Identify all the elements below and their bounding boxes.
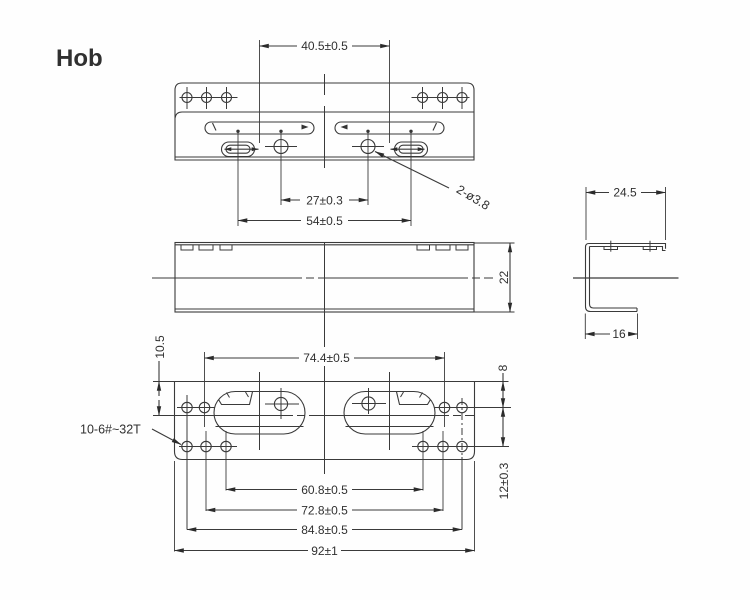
oval slot V2 inner [399,145,423,153]
svg-text:92±1: 92±1 [311,544,338,558]
dim 40.5 extension lines [260,40,390,143]
end view foot cap [636,308,638,312]
dim 27 extension lines [281,131,368,205]
dim 22 connector bottom [474,311,515,313]
cutout O1 notch shelf [219,392,253,405]
hole E1 bottom view [182,441,192,451]
dim 22 connector top [474,242,515,244]
dim 54 line [238,220,301,222]
front view outline [175,83,474,160]
slot S1 end tick [213,123,217,131]
hole E2 bottom view [201,441,211,451]
slot S1 inner arrow [302,125,309,130]
hole A6 front [457,93,467,103]
side view outline [175,243,474,313]
dim 92 extension lines [175,461,475,552]
bolt column line left [186,395,188,530]
dim 84.8 line [187,529,297,531]
screw mark M2 tab [643,247,656,250]
hole D1 bottom view [182,402,192,412]
dim 10.5 connector top [153,381,176,383]
screw mark M1 tab [604,247,618,250]
dim 92 line [175,550,309,552]
dim 74.4 extension lines [205,352,445,427]
hole A5 front [438,93,448,103]
svg-text:60.8±0.5: 60.8±0.5 [301,483,348,497]
dim 40.5 line [260,45,298,47]
tab T5 [436,245,450,250]
slot S1 left front [205,122,314,134]
cutout O2 notch shelf [397,392,431,405]
hole E3 bottom view [221,441,231,451]
tab T1 [181,245,193,250]
tab T6 [456,245,468,250]
centerline O1 vertical [259,372,261,450]
tab T4 [417,245,430,250]
crosshair holes E1-E3 [179,446,237,448]
dim 16 extension lines [585,314,637,340]
cutout O2 chord line [346,426,434,428]
hole B1 crosshair [265,146,297,148]
screw mark M2 [649,241,651,252]
dim 8 connector top [475,381,509,383]
crosshair holes D3-D4 connector dim 8 [434,407,511,409]
tab T2 [199,245,213,250]
node dots on slot edge [236,130,412,133]
svg-text:84.8±0.5: 84.8±0.5 [301,523,348,537]
cutout O2 notch ticks [420,393,423,398]
svg-text:74.4±0.5: 74.4±0.5 [303,351,350,365]
dim 8 line [502,373,504,382]
cutout O2 right obround [344,392,435,435]
end view web and foot outer [586,244,638,312]
slot S2 inner arrow [341,125,348,130]
crosshair holes D1-D2 [177,407,215,409]
hole E6 bottom view [457,441,467,451]
hole A2 front [202,93,212,103]
dim 74.4 line [205,357,300,359]
centerline O2 vertical [389,372,391,450]
dim 72.8 extension lines [206,431,443,511]
dim 12 line [502,408,504,447]
dim 10.5 line [158,361,160,382]
crosshair lines holes A1-A3 [180,87,238,109]
svg-text:72.8±0.5: 72.8±0.5 [301,504,348,518]
end view web and foot inner [590,247,638,309]
cutout O1 left obround [214,392,305,435]
tab T3 [220,245,232,250]
dim 72.8 line [206,509,297,511]
dim 60.8 line [226,489,297,491]
front view flange fold line [175,112,474,118]
hole C1 crosshair [265,388,299,419]
hole B2 crosshair [352,146,384,148]
hole B1 front (3.8) [274,140,288,154]
leader 2-o3.8 [375,152,449,189]
leader 10-6-32T line [152,429,181,445]
oval slot V1 inner [226,145,250,153]
centerline horizontal bottom view [153,415,475,417]
crosshair lines holes A4-A6 [412,87,470,109]
side view bottom inner line [175,308,474,310]
bolt column line right dashed [461,398,463,457]
svg-text:16: 16 [612,327,626,341]
dim 54 extension lines [238,131,411,226]
hole A3 front [222,93,232,103]
centerline horizontal end view [573,277,679,279]
dim 60.8 extension lines [226,431,423,491]
screw mark M1 [610,241,612,252]
hole C2 in O2 [362,397,375,410]
centerline horizontal side view [152,277,493,279]
svg-text:40.5±0.5: 40.5±0.5 [301,39,348,53]
slot S2 right front [335,122,444,134]
dim 16 line [585,333,610,335]
svg-text:2-ø3.8: 2-ø3.8 [454,182,492,213]
slot S2 end tick [433,123,437,131]
cutout O1 notch ticks [227,393,230,398]
cutout O1 chord line [216,426,304,428]
dim 24.5 line [586,192,609,194]
side view flange top inner line [175,244,474,246]
hole C2 crosshair [352,388,386,414]
dim 24.5 extension lines [586,187,666,240]
svg-text:24.5: 24.5 [613,186,637,200]
end view flange top edge [589,244,666,249]
oval slot V2 outer [395,142,428,157]
end view flange bottom edge [590,247,666,251]
centerline vertical main [324,74,326,474]
svg-text:Hob: Hob [56,45,103,72]
oval slot V2 arrow line [391,148,425,150]
hole E5 bottom view [438,441,448,451]
front view bottom inner edge [175,156,474,158]
hole A4 front [418,93,428,103]
hole B2 front (3.8) [361,140,375,154]
hole D2 bottom view [199,402,209,412]
svg-text:27±0.3: 27±0.3 [306,194,343,208]
dim 22 line [509,243,511,312]
hole A1 front [182,93,192,103]
oval slot V1 arrow line [225,148,259,150]
hole D3 bottom view [439,402,449,412]
oval slot V1 outer [222,142,255,157]
crosshair holes E4-E6 connector dim 12 [412,446,509,448]
svg-text:10-6#~32T: 10-6#~32T [80,423,141,437]
hole D4 bottom view [457,402,467,412]
svg-text:54±0.5: 54±0.5 [306,214,343,228]
svg-text:12±0.3: 12±0.3 [497,462,511,499]
hole E4 bottom view [418,441,428,451]
hole C1 in O1 [274,397,287,410]
svg-text:22: 22 [497,271,511,285]
bottom view outline [175,382,475,460]
dim 27 line [281,199,300,201]
svg-text:8: 8 [496,364,510,371]
svg-text:10.5: 10.5 [153,335,167,359]
